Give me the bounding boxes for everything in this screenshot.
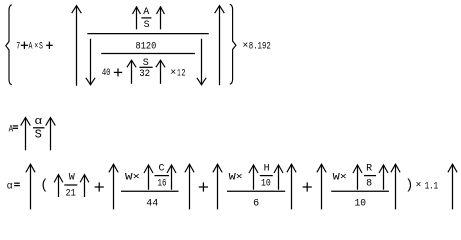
svg-text:α: α bbox=[7, 181, 13, 192]
svg-text:W×: W× bbox=[333, 173, 347, 184]
big ceiling open arrow formula 3 bbox=[26, 164, 35, 209]
svg-text:1.1: 1.1 bbox=[425, 181, 438, 192]
big ceiling close arrow bbox=[215, 6, 225, 86]
plus sign 3 bbox=[114, 68, 122, 76]
fraction bar C/16 bbox=[155, 175, 170, 177]
svg-text:44: 44 bbox=[146, 199, 158, 210]
svg-text:(: ( bbox=[40, 179, 48, 194]
plus sign group1-group2 bbox=[95, 182, 104, 191]
S/32 ceiling close arrow bbox=[156, 60, 165, 84]
svg-text:α: α bbox=[34, 116, 42, 128]
big ceiling open arrow bbox=[72, 6, 82, 86]
group 4 ceiling open arrow bbox=[317, 164, 326, 209]
fraction bar H/10 bbox=[260, 175, 273, 177]
left brace { bbox=[6, 5, 12, 85]
alpha/S ceiling open arrow bbox=[21, 118, 31, 151]
svg-text:C: C bbox=[158, 163, 164, 174]
alpha/S ceiling close arrow bbox=[46, 118, 56, 151]
svg-text:32: 32 bbox=[139, 69, 150, 80]
svg-text:16: 16 bbox=[158, 179, 167, 190]
group 3 ceiling open arrow bbox=[213, 164, 222, 209]
plus sign 1 bbox=[21, 42, 28, 49]
svg-text:R: R bbox=[366, 163, 372, 174]
equals sign formula 2 bbox=[13, 126, 18, 128]
plus sign 2 bbox=[46, 42, 53, 49]
numerator ceiling close arrow bbox=[157, 7, 165, 30]
fraction bar alpha/S bbox=[33, 127, 45, 129]
group 2 fraction bar bbox=[121, 190, 179, 192]
fraction bar R/8 bbox=[364, 175, 376, 177]
svg-text:2: 2 bbox=[181, 69, 185, 80]
right brace } bbox=[230, 4, 236, 84]
fraction bar A/S bbox=[141, 17, 151, 19]
svg-text:W×: W× bbox=[229, 173, 243, 184]
group 4 ceiling close arrow bbox=[391, 164, 400, 209]
svg-text:S: S bbox=[35, 128, 42, 142]
svg-text:W: W bbox=[69, 173, 75, 184]
svg-text:21: 21 bbox=[66, 189, 76, 200]
svg-text:H: H bbox=[264, 163, 270, 174]
W/21 ceiling close arrow bbox=[80, 175, 89, 198]
svg-text:10: 10 bbox=[355, 199, 367, 210]
plus sign group3-group4 bbox=[303, 182, 312, 191]
group 3 ceiling close arrow bbox=[287, 164, 296, 209]
R/8 ceiling close arrow bbox=[379, 165, 388, 190]
svg-text:8.192: 8.192 bbox=[249, 41, 271, 52]
svg-text:×: × bbox=[170, 68, 176, 79]
floor close down arrow bbox=[197, 39, 206, 85]
fraction bar S/32 bbox=[139, 66, 152, 68]
plus sign group2-group3 bbox=[199, 182, 208, 191]
svg-text:×: × bbox=[242, 41, 248, 52]
svg-text:6: 6 bbox=[253, 199, 259, 210]
svg-text:1: 1 bbox=[177, 69, 180, 80]
svg-text:10: 10 bbox=[261, 178, 271, 189]
svg-text:S: S bbox=[39, 42, 43, 53]
svg-text:7: 7 bbox=[16, 42, 20, 53]
S/32 ceiling open arrow bbox=[127, 60, 136, 84]
numerator ceiling open arrow bbox=[133, 7, 141, 30]
svg-text:×: × bbox=[34, 42, 38, 53]
main fraction bar bbox=[87, 33, 209, 35]
svg-text:A: A bbox=[9, 124, 14, 135]
svg-text:8: 8 bbox=[366, 178, 372, 189]
group 3 fraction bar bbox=[227, 190, 285, 192]
fraction bar W/21 bbox=[64, 184, 77, 186]
H/10 ceiling close arrow bbox=[274, 165, 283, 190]
svg-text:×: × bbox=[415, 180, 421, 191]
svg-text:S: S bbox=[144, 20, 150, 31]
final big ceiling close arrow bbox=[448, 164, 457, 209]
denominator bar 8120 bbox=[101, 53, 195, 55]
equals sign formula 3 bbox=[14, 183, 20, 185]
svg-text:W×: W× bbox=[125, 173, 140, 184]
svg-text:0: 0 bbox=[106, 68, 110, 79]
group 2 ceiling open arrow bbox=[109, 164, 118, 209]
svg-text:A: A bbox=[29, 42, 33, 53]
svg-text:): ) bbox=[405, 179, 413, 194]
R/8 ceiling open arrow bbox=[353, 165, 362, 190]
group 4 fraction bar bbox=[331, 190, 389, 192]
floor open down arrow bbox=[86, 39, 95, 85]
C/16 ceiling close arrow bbox=[167, 165, 176, 190]
W/21 ceiling open arrow bbox=[54, 175, 63, 198]
group 2 ceiling close arrow bbox=[185, 164, 194, 209]
svg-text:8120: 8120 bbox=[136, 41, 157, 52]
svg-text:A: A bbox=[143, 7, 149, 18]
H/10 ceiling open arrow bbox=[249, 165, 258, 190]
C/16 ceiling open arrow bbox=[144, 165, 153, 190]
